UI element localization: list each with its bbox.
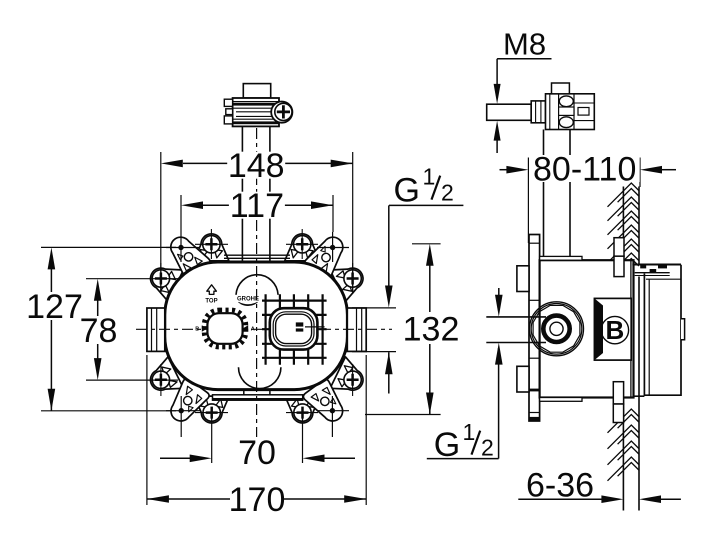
svg-text:1: 1: [463, 419, 476, 445]
svg-text:GROHE: GROHE: [237, 296, 259, 302]
top arc: [236, 275, 278, 295]
flange tab lower: [517, 366, 529, 392]
svg-text:80-110: 80-110: [533, 151, 636, 189]
svg-text:M8: M8: [503, 27, 546, 62]
mounting tab screw top-right: [285, 234, 320, 261]
body bottom edge extension: [634, 395, 645, 397]
svg-text:2: 2: [441, 180, 454, 206]
front sleeve box: [644, 265, 681, 396]
wall hatching: [608, 183, 639, 207]
dim 117 line: [203, 204, 229, 206]
fixing hole tab top-left: [163, 230, 211, 280]
boss edge extension bottom: [352, 351, 396, 353]
leader G half top: [389, 204, 463, 206]
svg-text:B: B: [606, 315, 625, 345]
left outlet boss: [147, 308, 165, 351]
dim 70 arrows: [190, 455, 212, 463]
leader M8: [497, 58, 551, 60]
fixing hole tab bottom-right: [302, 378, 350, 428]
dim 148 ext lines: [160, 152, 162, 292]
port mark: [296, 322, 304, 326]
pipe below coupling: [543, 130, 545, 258]
mounting flange: [529, 235, 540, 422]
top strap: [224, 254, 290, 256]
svg-text:B: B: [195, 326, 199, 332]
flange tab upper: [517, 266, 529, 292]
svg-text:78: 78: [80, 312, 118, 350]
dim 170 arrows: [147, 495, 169, 503]
mounting tab screw left-upper: [144, 258, 184, 301]
crosshair bottom-left hole: [166, 410, 200, 412]
wall plug upper: [614, 238, 624, 257]
dim 127 ext lines: [41, 246, 176, 248]
outlet port middle: [273, 312, 314, 346]
pipe stub above coupling: [552, 83, 570, 94]
svg-text:127: 127: [26, 288, 83, 326]
svg-text:TOP: TOP: [205, 298, 217, 304]
wall plug lower: [613, 382, 623, 404]
dim 170 ext lines: [146, 355, 148, 505]
dim 80-110 text: [530, 155, 640, 182]
dim 78 ext lines: [86, 278, 178, 280]
dim 78 arrows: [94, 279, 102, 301]
mounting tab screw right-lower: [330, 357, 370, 400]
crosshair top-left hole: [166, 247, 200, 249]
top orientation arrow: [207, 285, 217, 295]
clamp phillips screw: [275, 103, 292, 120]
flange dark bands: [529, 389, 540, 392]
clamp screw lobe: [271, 102, 292, 123]
crosshair side screws: [160, 263, 162, 294]
bottom arc: [239, 367, 281, 388]
dim 148 line: [183, 162, 228, 164]
stop box B: [594, 298, 631, 360]
svg-text:170: 170: [229, 481, 286, 519]
dim 148 arrows: [161, 160, 183, 168]
dim 70 line: [160, 457, 190, 459]
outlet port outer: [270, 308, 318, 349]
side inlet pipe: [486, 316, 546, 318]
svg-text:A: A: [251, 326, 255, 332]
dim 132 arrows: [426, 244, 434, 266]
sleeve notch: [681, 319, 685, 340]
dim 80-110 ext lines: [527, 158, 529, 244]
sleeve clips: [632, 264, 681, 266]
svg-text:2: 2: [481, 434, 494, 460]
dim 117 ext lines: [180, 195, 182, 232]
dim 132 ext lines: [412, 243, 441, 245]
clamp left tabs: [224, 99, 232, 106]
water grid: [265, 294, 267, 365]
port tick line: [305, 326, 325, 328]
leader G half bottom: [427, 458, 499, 460]
crosshair top screws: [195, 243, 228, 245]
top supply pipe: [241, 126, 243, 262]
wall front line: [638, 187, 640, 265]
mounting tab screw left-lower: [144, 357, 184, 400]
right outlet boss: [347, 308, 366, 351]
dim 6-36 arrows: [518, 498, 602, 500]
dim 127 arrows: [48, 247, 56, 269]
vertical centerline: [256, 128, 258, 437]
fixing hole tab bottom-left: [162, 377, 210, 427]
dim 70 ext lines: [211, 416, 213, 463]
wall back line: [622, 187, 624, 511]
dim 117 textbox: [229, 192, 285, 219]
clamp slot lines: [233, 102, 279, 125]
bottom strap: [213, 395, 303, 400]
dim 80-110 arrows: [506, 166, 528, 174]
body top shoulder: [540, 256, 582, 260]
mounting tab screw right-upper: [330, 258, 370, 301]
mounting tab screw bottom-left: [194, 396, 229, 423]
fixing hole tab top-right: [303, 231, 351, 281]
dim 78 textbox: [79, 317, 119, 344]
svg-text:148: 148: [228, 147, 285, 185]
dim 117 arrows: [181, 201, 203, 209]
dim 132 line: [429, 265, 431, 312]
dim 127 line: [50, 268, 52, 292]
dim 148 textbox: [227, 152, 285, 179]
circled B: [601, 316, 628, 343]
clamp pipe stub: [243, 84, 270, 98]
horizontal centerline: [136, 328, 392, 330]
valve body side: [540, 260, 634, 397]
pipe clamp body: [233, 98, 279, 126]
svg-text:70: 70: [238, 434, 276, 472]
M8 rod: [487, 104, 532, 120]
coupling body: [546, 94, 595, 130]
oval housing body: [165, 262, 348, 390]
coupling details: [549, 94, 551, 130]
svg-text:132: 132: [403, 311, 460, 349]
dim 78 line: [97, 300, 99, 316]
M8 hex nut: [531, 101, 545, 123]
marker arrow A: [243, 325, 249, 331]
mounting tab screw top-left: [194, 234, 229, 261]
mounting tab screw bottom-right: [285, 396, 320, 423]
svg-text:1: 1: [423, 164, 436, 190]
port circles: [530, 302, 584, 356]
crosshair bottom screws: [195, 412, 228, 414]
body bottom shoulder: [540, 398, 582, 402]
crosshair top-right hole: [317, 247, 349, 249]
dim 127 textbox: [28, 293, 82, 320]
svg-text:G: G: [394, 171, 420, 209]
dim 170 line: [147, 498, 230, 500]
cartridge gear teeth: [204, 310, 246, 347]
svg-text:117: 117: [230, 187, 284, 225]
cartridge gear body: [207, 313, 242, 344]
body right edge inner line: [630, 260, 632, 397]
marker arrow B: [202, 325, 208, 331]
outlet port inner: [276, 314, 312, 343]
boss edge extension top: [352, 307, 396, 309]
crosshair bottom-right hole: [317, 410, 349, 412]
